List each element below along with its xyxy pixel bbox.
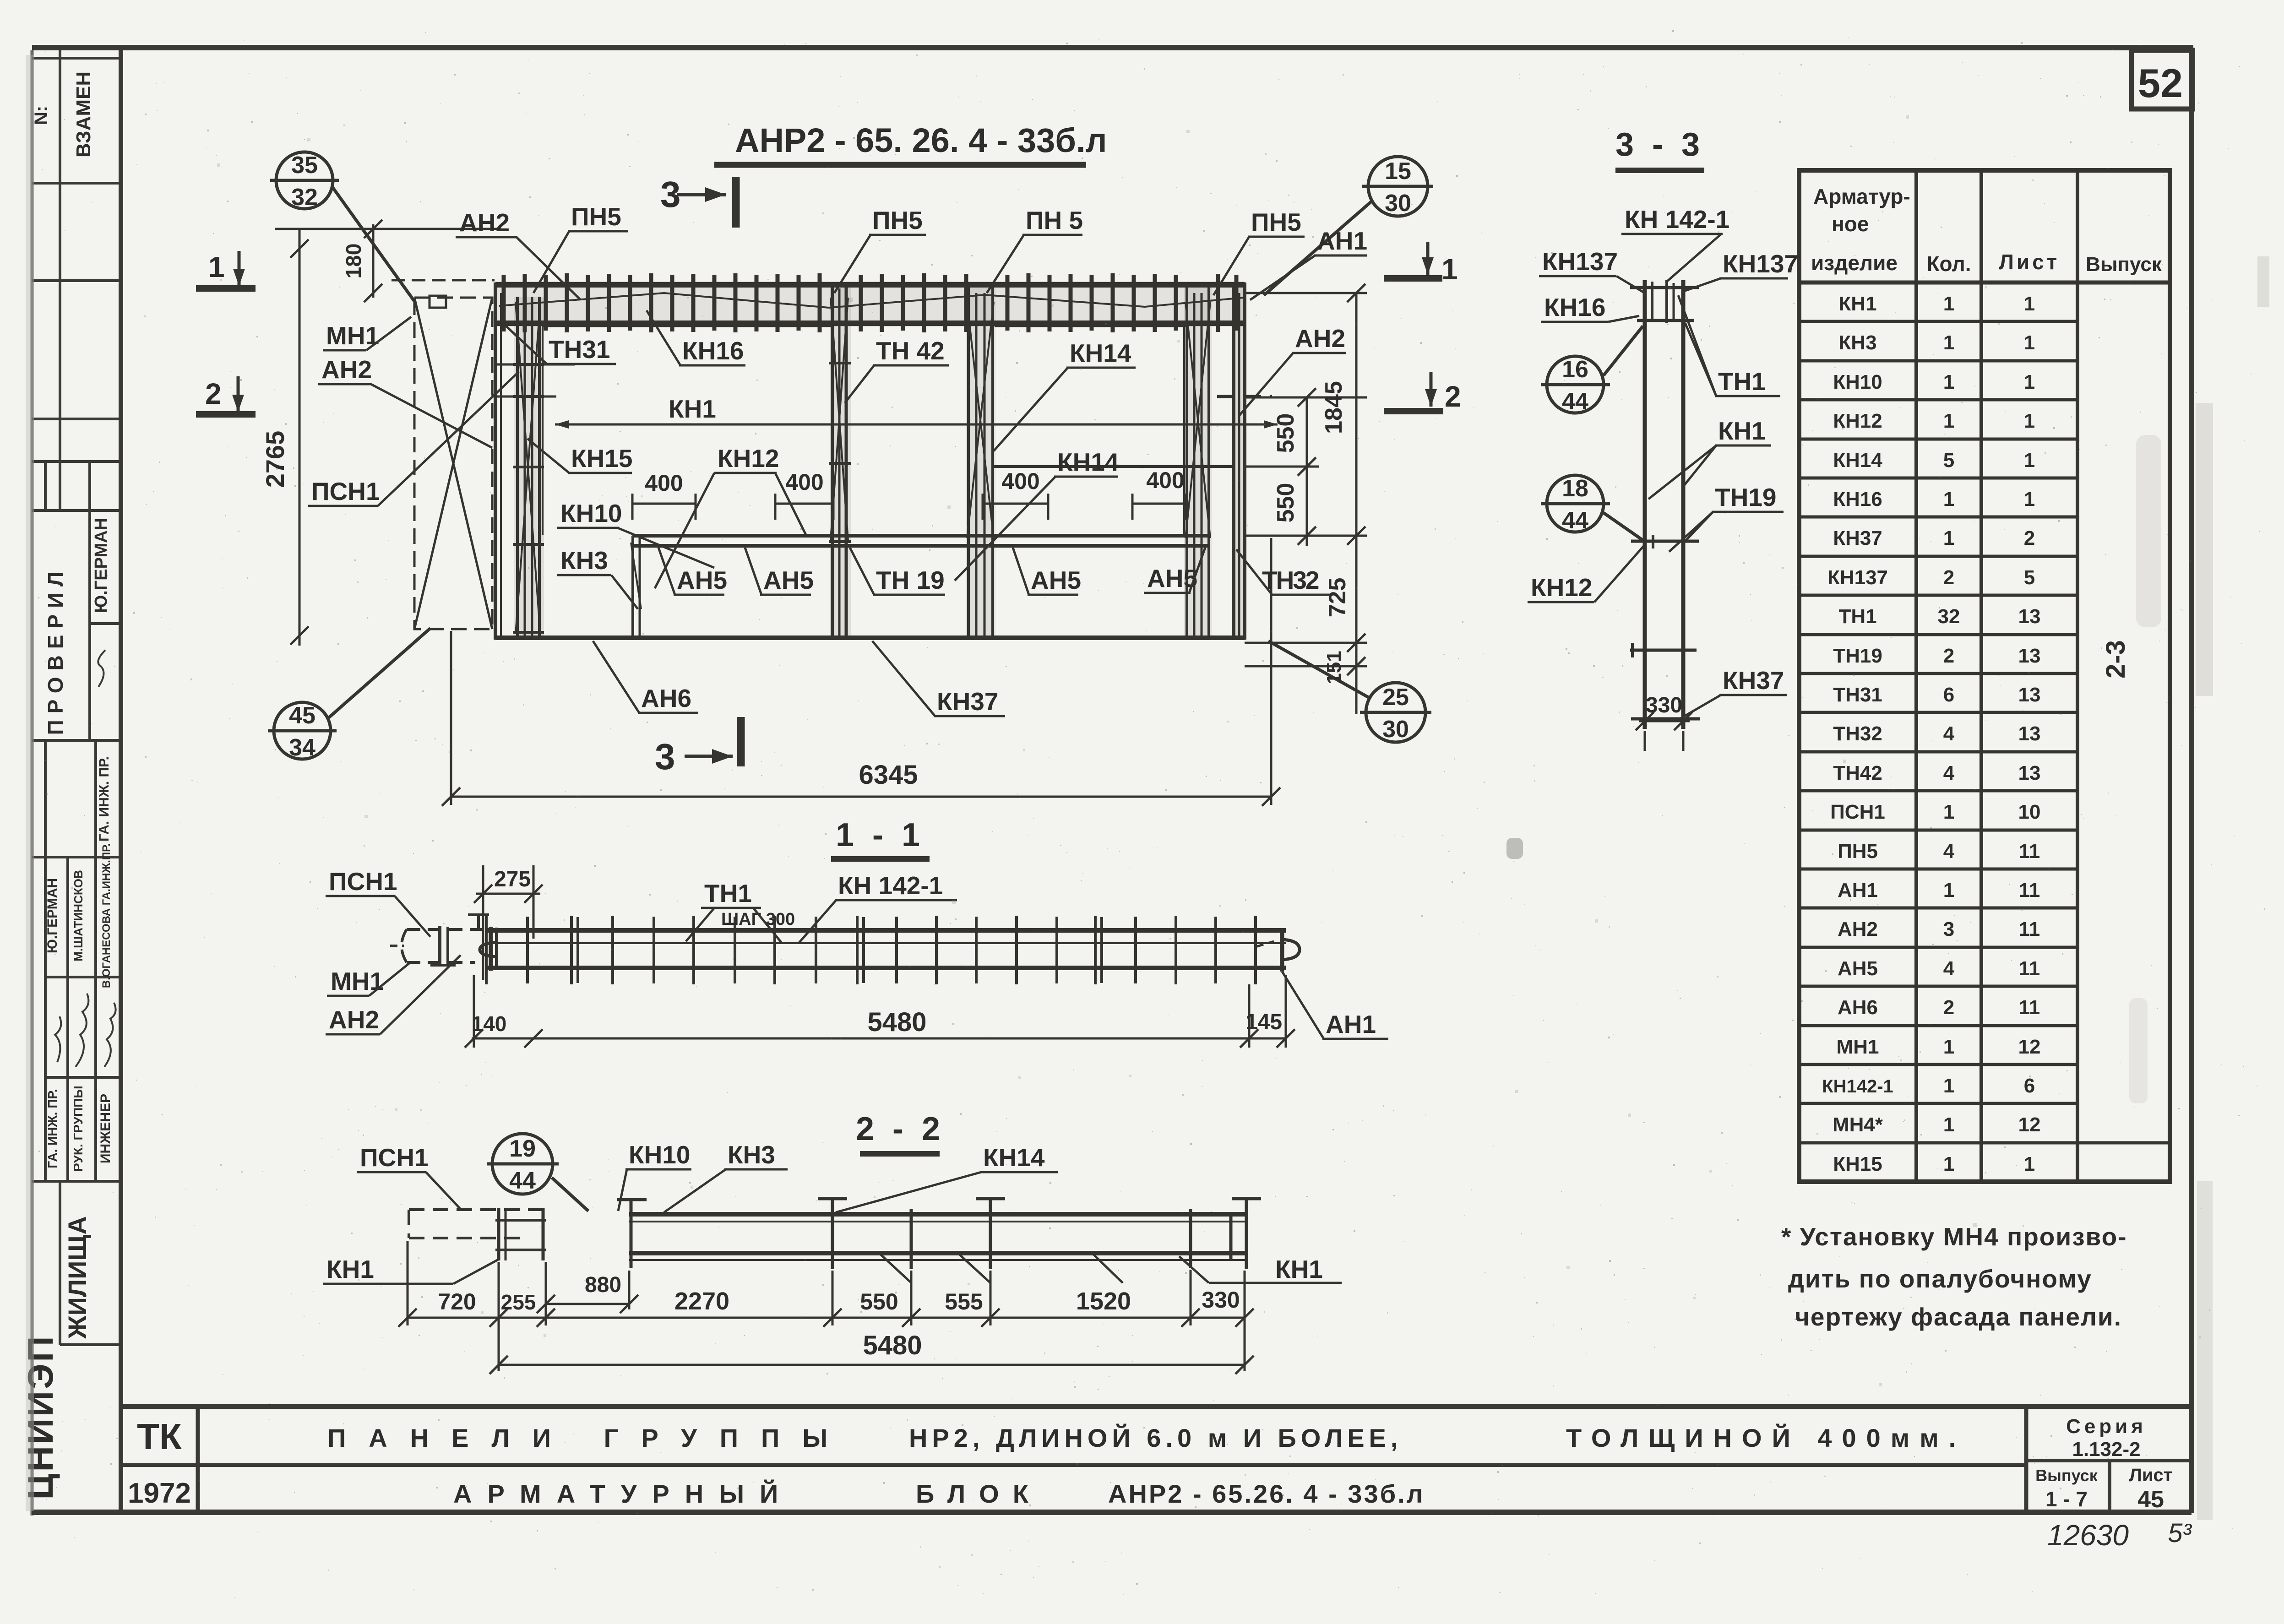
svg-text:2765: 2765 bbox=[261, 431, 289, 488]
svg-text:16: 16 bbox=[1562, 356, 1588, 383]
svg-text:550: 550 bbox=[1273, 413, 1299, 453]
beam ticks 1-1 bbox=[486, 916, 1256, 984]
svg-text:М.ШАТИНСКОВ: М.ШАТИНСКОВ bbox=[71, 870, 85, 961]
svg-text:11: 11 bbox=[2019, 957, 2040, 980]
svg-text:Лист: Лист bbox=[1999, 250, 2060, 274]
sidebar rotated texts bbox=[20, 71, 113, 1500]
svg-text:1: 1 bbox=[1943, 331, 1954, 354]
svg-text:ГА. ИНЖ. ПР.: ГА. ИНЖ. ПР. bbox=[45, 1089, 60, 1168]
svg-text:АН1: АН1 bbox=[1317, 227, 1367, 255]
svg-text:КН14: КН14 bbox=[1070, 339, 1131, 367]
svg-text:2-3: 2-3 bbox=[2101, 640, 2131, 679]
svg-text:В.ОГАНЕСОВА ГА.ИНЖ.ПР.: В.ОГАНЕСОВА ГА.ИНЖ.ПР. bbox=[100, 843, 113, 988]
svg-text:30: 30 bbox=[1382, 716, 1409, 743]
balloon 19/44 bbox=[487, 1134, 588, 1211]
svg-text:330: 330 bbox=[1202, 1287, 1240, 1313]
svg-text:АН2: АН2 bbox=[321, 355, 372, 384]
svg-text:330: 330 bbox=[1646, 693, 1682, 717]
svg-text:1 - 7: 1 - 7 bbox=[2045, 1487, 2088, 1511]
svg-text:КН15: КН15 bbox=[1833, 1153, 1882, 1175]
svg-text:ТН31: ТН31 bbox=[549, 335, 610, 364]
svg-text:N:: N: bbox=[31, 106, 51, 125]
svg-text:1: 1 bbox=[1943, 410, 1954, 432]
svg-text:ПН5: ПН5 bbox=[571, 202, 621, 231]
svg-text:Лист: Лист bbox=[2129, 1465, 2173, 1485]
bottom chord of plan bbox=[495, 635, 1245, 640]
svg-text:КН10: КН10 bbox=[560, 499, 622, 527]
svg-text:15: 15 bbox=[1385, 158, 1411, 185]
svg-text:АН1: АН1 bbox=[1838, 879, 1878, 902]
3-3 labels bbox=[1531, 205, 1798, 695]
svg-text:Кол.: Кол. bbox=[1926, 252, 1971, 276]
svg-text:ТОЛЩИНОЙ 400мм.: ТОЛЩИНОЙ 400мм. bbox=[1566, 1423, 1966, 1452]
right end hook 1-1 bbox=[1256, 929, 1300, 972]
svg-text:АН2: АН2 bbox=[459, 208, 510, 237]
svg-text:ПРОВЕРИЛ: ПРОВЕРИЛ bbox=[44, 565, 67, 735]
svg-text:2: 2 bbox=[1445, 380, 1461, 413]
svg-text:КН3: КН3 bbox=[728, 1141, 775, 1169]
svg-text:КН12: КН12 bbox=[1833, 410, 1882, 432]
svg-text:2270: 2270 bbox=[674, 1287, 729, 1315]
svg-text:44: 44 bbox=[1562, 388, 1588, 415]
svg-text:КН137: КН137 bbox=[1827, 566, 1888, 589]
svg-text:1845: 1845 bbox=[1321, 381, 1347, 434]
svg-text:44: 44 bbox=[509, 1168, 536, 1194]
svg-text:1 - 1: 1 - 1 bbox=[836, 817, 924, 853]
svg-text:5³: 5³ bbox=[2168, 1518, 2192, 1548]
svg-text:Серия: Серия bbox=[2066, 1415, 2147, 1438]
svg-text:КН 142-1: КН 142-1 bbox=[838, 871, 943, 900]
svg-text:32: 32 bbox=[291, 184, 318, 211]
label underlines + leaders bbox=[308, 231, 1367, 716]
svg-text:ТН 42: ТН 42 bbox=[876, 337, 945, 365]
svg-text:720: 720 bbox=[438, 1289, 476, 1314]
svg-text:34: 34 bbox=[289, 734, 315, 761]
svg-text:ПН5: ПН5 bbox=[1251, 208, 1301, 236]
svg-text:АН6: АН6 bbox=[1838, 996, 1878, 1019]
svg-text:АН6: АН6 bbox=[641, 684, 691, 712]
svg-text:Выпуск: Выпуск bbox=[2035, 1466, 2098, 1485]
table header bbox=[1811, 185, 2162, 276]
svg-text:ТН19: ТН19 bbox=[1833, 645, 1882, 667]
labels 2-2 bbox=[326, 1141, 1323, 1283]
kn1 long leader line bbox=[555, 424, 1278, 426]
mesh vertical ticks bbox=[504, 273, 1236, 332]
svg-text:2: 2 bbox=[1943, 566, 1954, 589]
svg-text:400: 400 bbox=[1146, 467, 1184, 493]
svg-text:Выпуск: Выпуск bbox=[2086, 253, 2162, 276]
svg-text:2 - 2: 2 - 2 bbox=[856, 1111, 945, 1147]
svg-text:10: 10 bbox=[2018, 801, 2041, 823]
svg-text:ЖИЛИЩА: ЖИЛИЩА bbox=[63, 1216, 92, 1339]
balloon 18/44 bbox=[1541, 475, 1643, 540]
svg-text:11: 11 bbox=[2019, 918, 2040, 940]
dims 2-2 bbox=[398, 1241, 1254, 1374]
svg-text:ПАНЕЛИ ГРУППЫ: ПАНЕЛИ ГРУППЫ bbox=[327, 1423, 850, 1452]
svg-text:ТН1: ТН1 bbox=[1838, 605, 1876, 628]
PARTS TABLE bbox=[1799, 170, 2170, 1182]
svg-text:2: 2 bbox=[205, 377, 222, 410]
beam chords 1-1 bbox=[488, 930, 1286, 968]
svg-text:725: 725 bbox=[1324, 578, 1351, 618]
svg-text:ГА. ИНЖ. ПР.: ГА. ИНЖ. ПР. bbox=[97, 756, 112, 842]
balloon 15/30 bbox=[1264, 157, 1433, 295]
svg-text:1: 1 bbox=[1943, 879, 1954, 902]
SIDEBAR bbox=[32, 48, 121, 1345]
svg-text:1: 1 bbox=[1943, 527, 1954, 549]
svg-text:АНР2 - 65.26. 4 - 33б.л: АНР2 - 65.26. 4 - 33б.л bbox=[1108, 1479, 1425, 1508]
left dim 2765 bbox=[275, 220, 497, 646]
svg-text:550: 550 bbox=[860, 1289, 898, 1314]
beam chords 2-2 bbox=[629, 1214, 1248, 1260]
svg-text:РУК. ГРУППЫ: РУК. ГРУППЫ bbox=[71, 1086, 85, 1172]
svg-text:АН2: АН2 bbox=[1295, 324, 1345, 353]
svg-text:ПСН1: ПСН1 bbox=[1830, 801, 1885, 823]
svg-text:АРМАТУРНЫЙ: АРМАТУРНЫЙ bbox=[453, 1479, 794, 1508]
svg-text:* Установку МН4 произво-: * Установку МН4 произво- bbox=[1781, 1222, 2127, 1251]
svg-text:1: 1 bbox=[1943, 1075, 1954, 1097]
svg-text:3: 3 bbox=[655, 736, 675, 777]
3-3 dim 330 bbox=[1636, 712, 1692, 751]
svg-text:дить по опалубочному: дить по опалубочному bbox=[1788, 1265, 2092, 1293]
svg-text:ПН 5: ПН 5 bbox=[1026, 206, 1083, 234]
svg-text:6345: 6345 bbox=[859, 760, 918, 790]
note bottom right bbox=[1781, 1222, 2127, 1331]
signatures bbox=[55, 650, 116, 1067]
balloon 16/44 bbox=[1541, 326, 1643, 413]
svg-text:25: 25 bbox=[1382, 684, 1409, 711]
svg-text:6: 6 bbox=[2024, 1075, 2035, 1097]
svg-text:1: 1 bbox=[1441, 253, 1458, 286]
lower horizontal band (АН5 zone) bbox=[632, 534, 1209, 538]
400 dims in plan bbox=[632, 494, 1186, 520]
svg-text:400: 400 bbox=[645, 470, 683, 496]
svg-text:КН10: КН10 bbox=[1833, 371, 1882, 393]
svg-text:БЛОК: БЛОК bbox=[916, 1479, 1042, 1508]
svg-text:1972: 1972 bbox=[128, 1477, 191, 1509]
2-2 leaders bbox=[323, 1169, 1342, 1284]
svg-text:19: 19 bbox=[509, 1135, 536, 1162]
svg-text:ПСН1: ПСН1 bbox=[311, 477, 380, 505]
svg-text:АН5: АН5 bbox=[1031, 566, 1081, 594]
dim 6345 bbox=[442, 538, 1280, 806]
2-2 verticals with T heads bbox=[617, 1199, 1261, 1269]
svg-text:555: 555 bbox=[945, 1289, 983, 1314]
svg-text:5: 5 bbox=[2024, 566, 2035, 589]
svg-text:ТК: ТК bbox=[137, 1416, 182, 1457]
balloon 35/32 bbox=[270, 152, 414, 301]
svg-text:КН14: КН14 bbox=[1833, 449, 1882, 472]
svg-text:1520: 1520 bbox=[1076, 1287, 1131, 1315]
svg-text:ТН31: ТН31 bbox=[1833, 684, 1882, 706]
svg-text:1: 1 bbox=[2024, 449, 2035, 472]
svg-text:НР2, ДЛИНОЙ 6.0 м И БОЛЕЕ,: НР2, ДЛИНОЙ 6.0 м И БОЛЕЕ, bbox=[909, 1423, 1402, 1452]
svg-text:АН2: АН2 bbox=[1838, 918, 1878, 940]
svg-text:13: 13 bbox=[2018, 645, 2041, 667]
svg-text:ВЗАМЕН: ВЗАМЕН bbox=[72, 71, 95, 158]
svg-text:ПСН1: ПСН1 bbox=[329, 867, 397, 896]
left end assembly 1-1 (ПСН1 hook) bbox=[390, 915, 497, 971]
svg-text:13: 13 bbox=[2018, 684, 2041, 706]
svg-text:КН37: КН37 bbox=[1723, 666, 1784, 695]
svg-text:1: 1 bbox=[1943, 488, 1954, 511]
svg-text:МН4*: МН4* bbox=[1833, 1113, 1883, 1136]
svg-text:2: 2 bbox=[1943, 645, 1954, 667]
svg-text:КН14: КН14 bbox=[983, 1143, 1045, 1172]
svg-text:ТН42: ТН42 bbox=[1833, 762, 1882, 784]
svg-text:изделие: изделие bbox=[1811, 251, 1898, 275]
svg-text:275: 275 bbox=[494, 867, 531, 891]
frame right border bbox=[2189, 48, 2194, 1513]
svg-text:Арматур-: Арматур- bbox=[1813, 185, 1910, 208]
svg-text:АН5: АН5 bbox=[763, 566, 814, 594]
svg-text:140: 140 bbox=[472, 1012, 507, 1036]
window2 mid bar bbox=[993, 465, 1234, 468]
svg-text:12: 12 bbox=[2018, 1113, 2041, 1136]
svg-text:КН1: КН1 bbox=[669, 395, 716, 423]
svg-text:МН1: МН1 bbox=[1837, 1036, 1879, 1058]
labels 1-1 left bbox=[329, 867, 1376, 1038]
svg-text:АН2: АН2 bbox=[329, 1005, 379, 1034]
psn1 left lattice bundle bbox=[516, 297, 519, 637]
svg-text:4: 4 bbox=[1943, 722, 1955, 745]
svg-text:400: 400 bbox=[1001, 468, 1039, 494]
svg-text:4: 4 bbox=[1943, 957, 1955, 980]
window2 left bundle bbox=[967, 282, 970, 640]
MН1 dashed element (left of plan) bbox=[392, 280, 495, 629]
svg-text:КН16: КН16 bbox=[682, 337, 744, 365]
svg-text:ТН 19: ТН 19 bbox=[876, 566, 945, 594]
svg-text:Ю.ГЕРМАН: Ю.ГЕРМАН bbox=[45, 878, 60, 953]
table rows bbox=[1822, 293, 2040, 1175]
TITLE BLOCK bbox=[121, 1407, 2192, 1512]
svg-text:КН12: КН12 bbox=[718, 444, 779, 473]
right dims 550/550/1845/725/151 bbox=[1245, 284, 1367, 714]
frame bottom border bbox=[32, 1510, 2192, 1515]
svg-text:4: 4 bbox=[1943, 762, 1955, 784]
svg-text:АН5: АН5 bbox=[1838, 957, 1878, 980]
svg-text:КН16: КН16 bbox=[1544, 293, 1605, 321]
svg-text:КН137: КН137 bbox=[1723, 250, 1798, 278]
svg-text:1: 1 bbox=[1943, 371, 1954, 393]
bundle rungs bbox=[513, 363, 544, 366]
svg-text:550: 550 bbox=[1273, 483, 1299, 523]
svg-text:КН1: КН1 bbox=[1275, 1255, 1323, 1283]
svg-text:255: 255 bbox=[501, 1290, 536, 1314]
svg-text:КН142-1: КН142-1 bbox=[1822, 1076, 1893, 1097]
svg-text:ПН5: ПН5 bbox=[872, 206, 923, 234]
svg-text:13: 13 bbox=[2018, 605, 2041, 628]
svg-text:ТН1: ТН1 bbox=[704, 879, 752, 907]
svg-text:11: 11 bbox=[2019, 996, 2040, 1019]
svg-text:1: 1 bbox=[1943, 1153, 1954, 1175]
svg-text:КН37: КН37 bbox=[937, 687, 998, 716]
svg-text:3: 3 bbox=[1943, 918, 1954, 940]
frame top border bbox=[32, 45, 2193, 50]
svg-text:880: 880 bbox=[585, 1273, 621, 1297]
svg-text:КН1: КН1 bbox=[326, 1255, 374, 1283]
svg-text:1: 1 bbox=[1943, 1036, 1954, 1058]
svg-text:3 - 3: 3 - 3 bbox=[1615, 126, 1704, 163]
svg-text:13: 13 bbox=[2018, 722, 2041, 745]
svg-text:ИНЖЕНЕР: ИНЖЕНЕР bbox=[98, 1094, 113, 1163]
svg-text:1: 1 bbox=[2024, 293, 2035, 315]
svg-text:11: 11 bbox=[2019, 879, 2040, 902]
svg-text:КН12: КН12 bbox=[1531, 573, 1592, 602]
svg-text:КН15: КН15 bbox=[571, 444, 632, 473]
svg-text:ПСН1: ПСН1 bbox=[360, 1143, 429, 1172]
svg-text:КН 142-1: КН 142-1 bbox=[1625, 205, 1729, 234]
svg-text:КН1: КН1 bbox=[1838, 293, 1876, 315]
svg-text:1: 1 bbox=[2024, 1153, 2035, 1175]
svg-text:151: 151 bbox=[1323, 651, 1345, 684]
svg-text:КН10: КН10 bbox=[629, 1141, 690, 1169]
svg-text:КН137: КН137 bbox=[1542, 247, 1618, 276]
svg-text:1: 1 bbox=[1943, 1113, 1954, 1136]
page number box 52 bbox=[2132, 50, 2192, 109]
svg-text:ТН1: ТН1 bbox=[1718, 367, 1766, 396]
svg-text:ПН5: ПН5 bbox=[1838, 840, 1878, 863]
top rebar mesh band bbox=[495, 285, 1245, 323]
3-3 column bbox=[1630, 280, 1700, 729]
svg-text:Ю.ГЕРМАН: Ю.ГЕРМАН bbox=[92, 518, 111, 613]
outer sheet edge artifacts bbox=[31, 50, 34, 1515]
svg-text:чертежу фасада панели.: чертежу фасада панели. bbox=[1795, 1303, 2122, 1331]
svg-text:11: 11 bbox=[2019, 840, 2040, 863]
svg-text:35: 35 bbox=[291, 152, 318, 179]
svg-text:12630: 12630 bbox=[2047, 1519, 2129, 1552]
svg-text:12: 12 bbox=[2018, 1036, 2041, 1058]
right edge verticals bbox=[1232, 282, 1235, 640]
svg-text:ТН19: ТН19 bbox=[1715, 483, 1777, 511]
svg-text:КН1: КН1 bbox=[1718, 417, 1766, 445]
frame left border (main field) bbox=[119, 48, 123, 1512]
svg-text:КН16: КН16 bbox=[1833, 488, 1882, 511]
svg-text:КН14: КН14 bbox=[1057, 448, 1119, 476]
balloon 45/34 bbox=[268, 628, 430, 759]
svg-text:45: 45 bbox=[2137, 1486, 2164, 1513]
svg-text:КН3: КН3 bbox=[560, 546, 608, 575]
svg-text:30: 30 bbox=[1385, 190, 1411, 217]
svg-text:1: 1 bbox=[208, 250, 225, 283]
balloon 25/30 bbox=[1268, 641, 1431, 742]
svg-text:1: 1 bbox=[2024, 331, 2035, 354]
svg-text:2: 2 bbox=[2024, 527, 2035, 549]
svg-text:1: 1 bbox=[2024, 371, 2035, 393]
svg-text:145: 145 bbox=[1245, 1010, 1282, 1034]
central lattice bundle bbox=[831, 282, 834, 640]
svg-text:1: 1 bbox=[1943, 293, 1954, 315]
svg-text:АН5: АН5 bbox=[677, 566, 727, 594]
svg-text:32: 32 bbox=[1938, 605, 1960, 628]
svg-text:ное: ное bbox=[1832, 212, 1869, 236]
svg-text:44: 44 bbox=[1562, 507, 1588, 534]
svg-text:400: 400 bbox=[785, 469, 823, 495]
svg-text:ТН32: ТН32 bbox=[1262, 566, 1319, 594]
plan outline verticals left edge bbox=[495, 282, 1278, 640]
svg-text:4: 4 bbox=[1943, 840, 1955, 863]
svg-text:2: 2 bbox=[1943, 996, 1954, 1019]
svg-text:5480: 5480 bbox=[867, 1007, 926, 1037]
svg-text:КН3: КН3 bbox=[1838, 331, 1876, 354]
dashed AH2 element right bbox=[1217, 395, 1272, 398]
left dashed element 2-2 bbox=[409, 1208, 546, 1260]
svg-text:1: 1 bbox=[1943, 801, 1954, 823]
svg-text:52: 52 bbox=[2138, 60, 2183, 106]
svg-text:5: 5 bbox=[1943, 449, 1954, 472]
svg-text:ТН32: ТН32 bbox=[1833, 722, 1882, 745]
svg-text:1: 1 bbox=[2024, 410, 2035, 432]
svg-text:АН1: АН1 bbox=[1326, 1010, 1376, 1038]
window2 right bundle bbox=[1186, 282, 1188, 640]
svg-text:1: 1 bbox=[2024, 488, 2035, 511]
plan labels row: top bbox=[311, 202, 1367, 716]
dims 1-1 bbox=[465, 865, 1295, 1048]
svg-text:1.132-2: 1.132-2 bbox=[2072, 1438, 2140, 1461]
svg-text:18: 18 bbox=[1562, 475, 1588, 502]
short rails left bbox=[495, 364, 575, 366]
svg-text:45: 45 bbox=[289, 702, 315, 729]
svg-text:КН37: КН37 bbox=[1833, 527, 1882, 549]
svg-text:13: 13 bbox=[2018, 762, 2041, 784]
svg-text:АНР2 - 65. 26. 4 - 33б.л: АНР2 - 65. 26. 4 - 33б.л bbox=[735, 121, 1107, 159]
svg-text:180: 180 bbox=[342, 244, 365, 279]
svg-text:6: 6 bbox=[1943, 684, 1954, 706]
svg-text:5480: 5480 bbox=[863, 1331, 922, 1360]
